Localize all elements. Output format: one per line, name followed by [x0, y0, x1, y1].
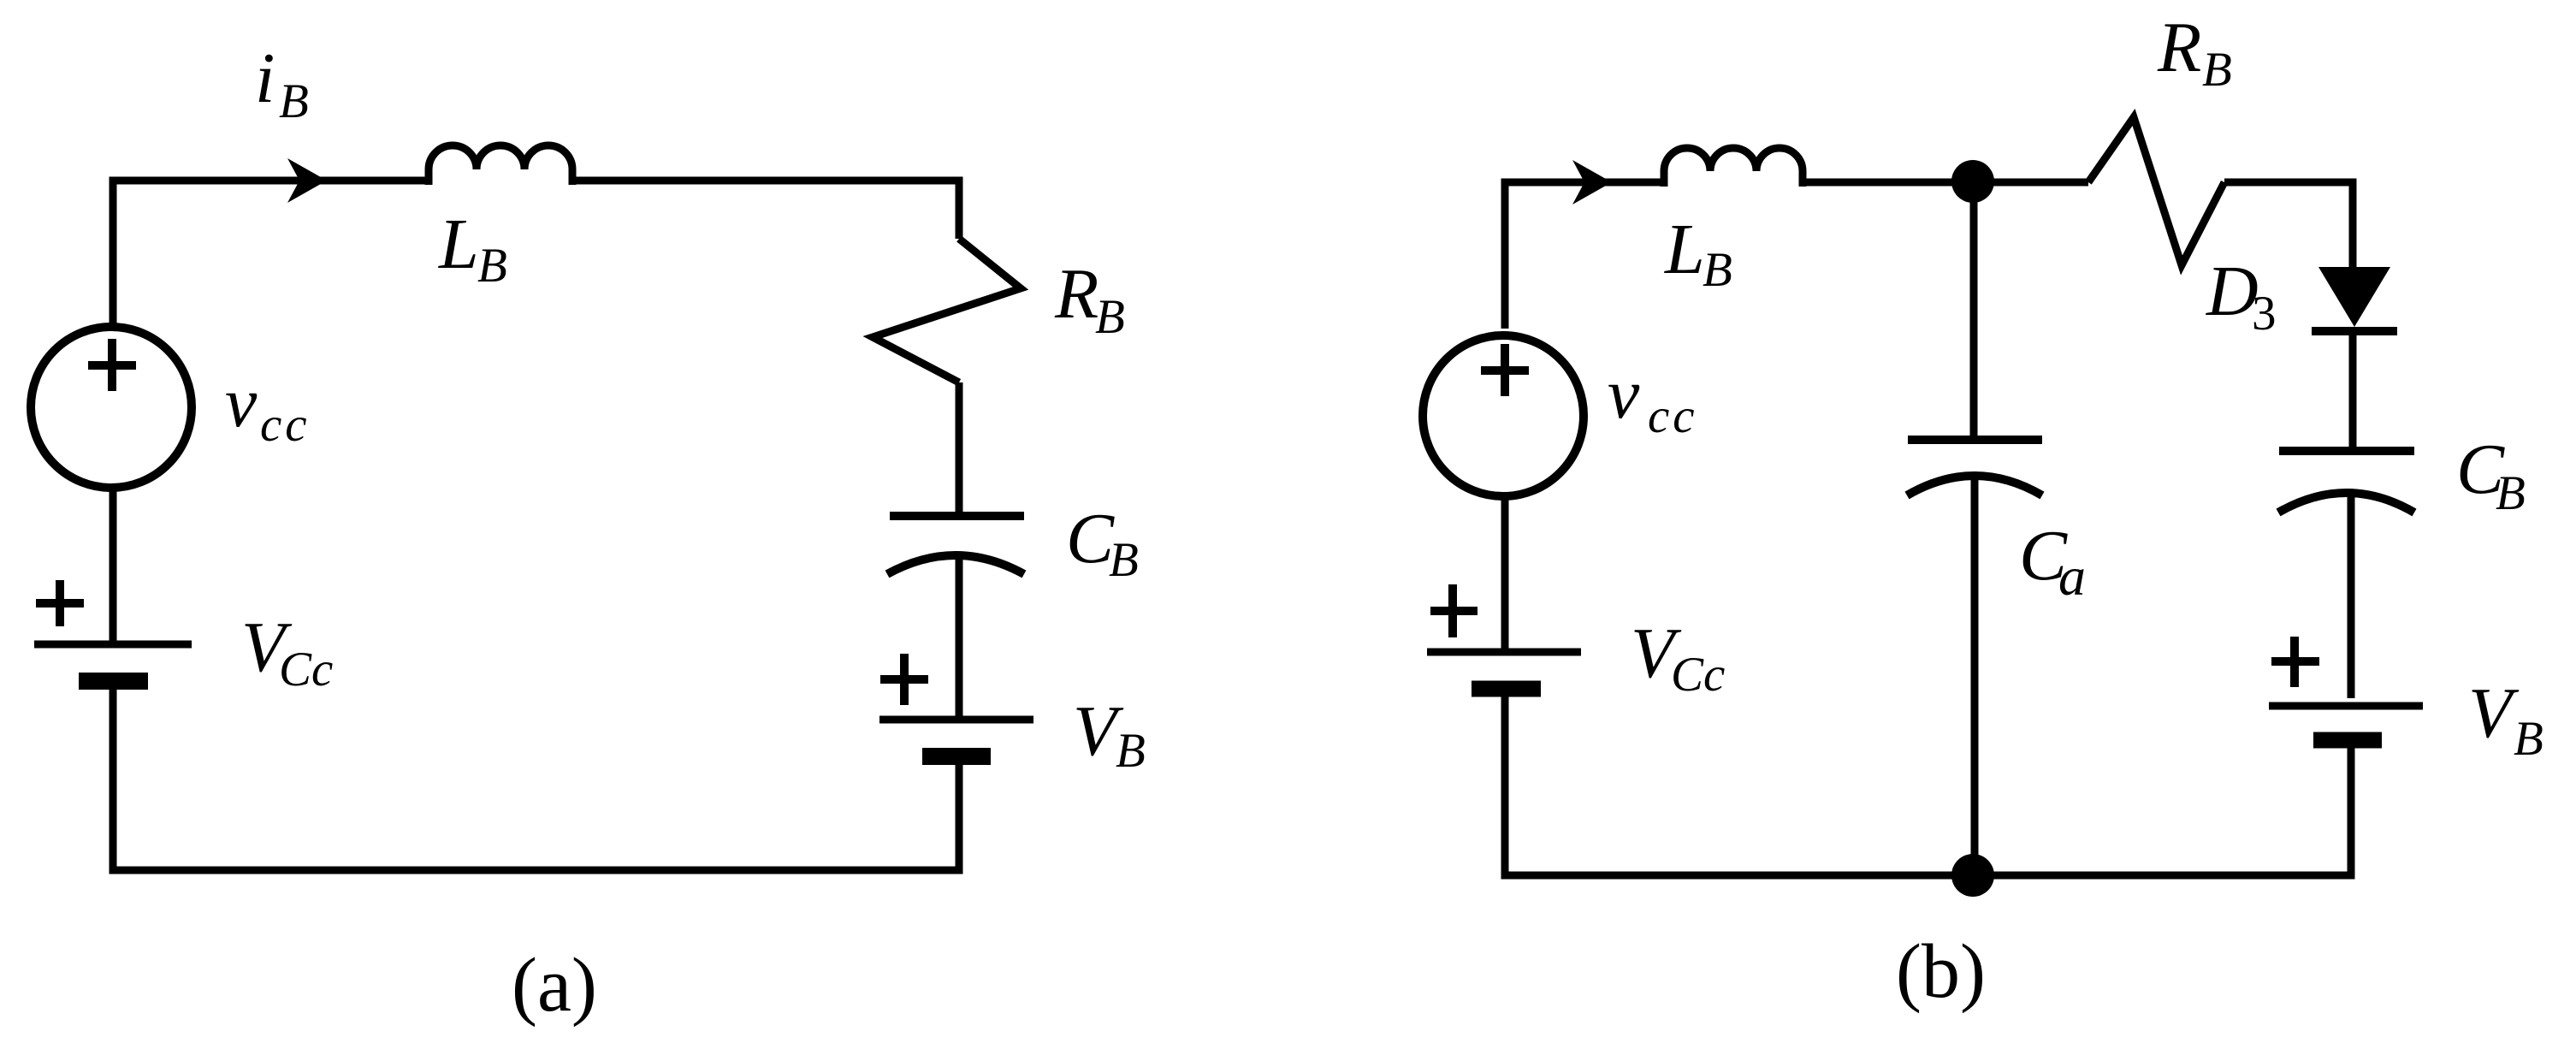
svg-text:R: R: [1054, 254, 1099, 334]
svg-text:(a): (a): [512, 943, 597, 1028]
svg-text:cc: cc: [260, 398, 311, 452]
svg-text:B: B: [1109, 533, 1139, 587]
svg-text:a: a: [2058, 546, 2086, 607]
svg-text:cc: cc: [1648, 389, 1698, 443]
svg-text:i: i: [255, 39, 275, 118]
svg-text:B: B: [279, 74, 309, 128]
svg-text:L: L: [438, 204, 479, 284]
svg-text:(b): (b): [1896, 929, 1986, 1014]
svg-text:L: L: [1664, 210, 1705, 289]
svg-text:D: D: [2206, 252, 2259, 331]
svg-text:v: v: [225, 363, 258, 442]
svg-text:B: B: [1703, 243, 1732, 297]
svg-text:C: C: [1066, 499, 1115, 578]
svg-text:V: V: [2468, 673, 2520, 753]
svg-text:B: B: [2496, 466, 2526, 520]
svg-text:v: v: [1608, 354, 1640, 434]
svg-text:B: B: [2514, 712, 2543, 766]
svg-text:R: R: [2157, 8, 2201, 87]
svg-text:B: B: [1116, 724, 1146, 778]
svg-text:B: B: [1095, 290, 1125, 344]
svg-text:B: B: [2202, 43, 2232, 97]
svg-text:3: 3: [2252, 287, 2277, 341]
svg-text:Cc: Cc: [279, 643, 333, 696]
svg-text:B: B: [477, 239, 507, 293]
svg-text:Cc: Cc: [1671, 648, 1725, 702]
